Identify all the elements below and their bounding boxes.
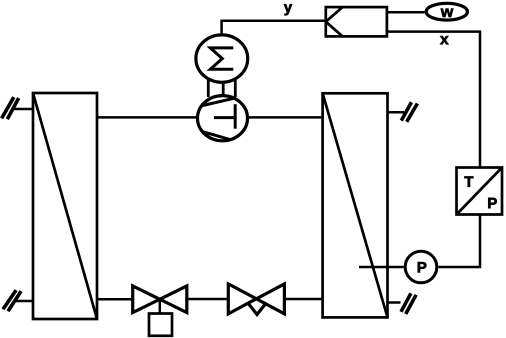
- label P (in transducer): [488, 198, 496, 208]
- transducer T/P diagonal: [457, 168, 503, 215]
- heat exchanger E2 diagonal: [323, 93, 388, 317]
- wire E2 top-right stub: [388, 111, 405, 114]
- compressor V1 upper chord: [194, 96, 243, 107]
- wire E1 to compressor (top left pipe): [97, 116, 199, 119]
- shaft coupling lines between motor and compressor: [208, 80, 235, 97]
- hatch E2 bottom-right: [401, 293, 416, 314]
- transducer T/P box: [457, 168, 503, 215]
- controller K notch lower: [326, 22, 343, 37]
- wire valve V2 to valve V3: [187, 298, 229, 301]
- wire E1 top-left stub: [12, 108, 34, 111]
- motor M circle: [196, 35, 248, 82]
- label T: [464, 176, 473, 186]
- wire transducer down to pressure sensor: [438, 215, 480, 268]
- wire E2 bottom-right stub: [388, 301, 401, 304]
- label x: [440, 36, 448, 44]
- label y: [284, 4, 292, 15]
- heat exchanger E1 diagonal: [33, 93, 97, 319]
- label w: [441, 9, 454, 17]
- setpoint w ellipse: [426, 3, 467, 20]
- valve V3 (expansion valve) left triangle: [228, 284, 256, 314]
- wire controller x output to TP transducer: [387, 32, 480, 168]
- wire pressure sensor into E2: [359, 266, 404, 269]
- compressor V1 inner tee horizontal: [214, 116, 235, 119]
- wire compressor to E2 (top right pipe): [247, 116, 323, 119]
- wire controller to w setpoint: [387, 11, 425, 14]
- compressor V1 circle: [198, 96, 248, 141]
- motor sigma glyph: [210, 48, 233, 69]
- controller K box: [326, 7, 387, 36]
- wire motor to controller (y signal): [222, 21, 326, 35]
- label P (sensor): [418, 262, 426, 272]
- valve V3 vee: [248, 303, 267, 315]
- heat exchanger E2 (right) body: [323, 93, 388, 317]
- valve V3 right triangle: [256, 284, 284, 314]
- valve V2 actuator box: [149, 314, 172, 336]
- controller K notch upper: [326, 7, 343, 22]
- valve V2 (hand valve) left triangle: [133, 286, 160, 313]
- wire E1 bottom-left stub: [14, 300, 34, 303]
- pressure sensor P circle: [405, 251, 437, 283]
- hatch E2 top-right: [401, 102, 417, 122]
- valve V2 actuator stem: [159, 299, 162, 313]
- wire valve V3 to E2 (bottom pipe right): [284, 298, 322, 301]
- wire E1 to valve (bottom pipe left): [97, 298, 133, 301]
- hatch E1 top-left: [2, 97, 19, 119]
- compressor V1 lower chord: [195, 129, 240, 142]
- heat exchanger E1 (left) body: [33, 93, 97, 319]
- compressor V1 inner tee vertical: [234, 104, 237, 129]
- hatch E1 bottom-left: [3, 290, 21, 311]
- valve V2 right triangle: [160, 286, 187, 313]
